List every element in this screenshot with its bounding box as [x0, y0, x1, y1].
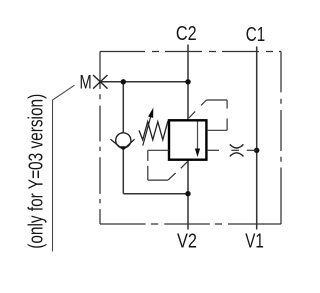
wire check-valve branch lower [122, 150, 124, 194]
valve envelope bottom edge [100, 223, 281, 225]
check valve seat [111, 139, 135, 149]
svg-text:V1: V1 [245, 230, 264, 253]
spring adjustment arrow [143, 114, 152, 145]
valve envelope right edge [280, 52, 282, 225]
check valve seat wedge [120, 146, 127, 149]
svg-text:C1: C1 [246, 23, 265, 46]
wire M line [100, 81, 188, 83]
wire V2 line [187, 161, 189, 230]
orifice restriction [230, 144, 244, 156]
wire check-valve to V2 [123, 193, 188, 195]
leader line from note to port M [53, 85, 75, 251]
wire C1-V1 line [256, 47, 258, 230]
pilot line upper loop [189, 100, 227, 130]
svg-text:C2: C2 [176, 22, 197, 45]
junction dot at V2/check branch [185, 191, 190, 196]
junction dot at M/C2 [185, 79, 190, 84]
check valve CV ball [116, 133, 131, 148]
wire check-valve branch upper [122, 82, 124, 133]
pilot line to orifice [207, 149, 257, 151]
relief valve body [169, 120, 206, 159]
junction dot at V1/pilot [254, 148, 259, 153]
svg-text:V2: V2 [177, 230, 197, 253]
relief valve flow arrow [197, 122, 199, 151]
wire C2 line [187, 45, 189, 121]
pilot line lower loop [148, 150, 188, 180]
svg-text:M: M [80, 72, 92, 93]
valve envelope left edge [99, 52, 101, 225]
junction dot at M/check branch [121, 79, 126, 84]
plugged port X symbol at M [93, 75, 107, 89]
valve envelope (dash-dot boundary box) top edge [100, 51, 281, 53]
adjustable spring [139, 121, 168, 140]
svg-text:(only for Y=03 version): (only for Y=03 version) [26, 94, 48, 249]
